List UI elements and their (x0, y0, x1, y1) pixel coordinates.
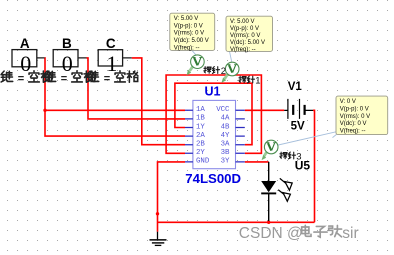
svg-text:4Y: 4Y (221, 132, 230, 140)
svg-text:V(freq): --: V(freq): -- (340, 129, 366, 135)
svg-text:V(dc): 5.00 V: V(dc): 5.00 V (230, 40, 265, 46)
svg-text:V(dc): 0 V: V(dc): 0 V (340, 121, 367, 127)
svg-text:1Y: 1Y (196, 123, 205, 131)
svg-text:V: 0 V: V: 0 V (340, 99, 356, 105)
svg-text:V(rms): 0 V: V(rms): 0 V (174, 31, 204, 37)
svg-text:VCC: VCC (216, 106, 230, 114)
svg-text:74LS00D: 74LS00D (185, 171, 241, 186)
svg-text:C: C (106, 36, 116, 51)
svg-text:4A: 4A (221, 115, 230, 123)
svg-text:V(p-p): 0 V: V(p-p): 0 V (340, 106, 369, 112)
svg-text:1: 1 (255, 76, 260, 87)
svg-text:V(rms): 0 V: V(rms): 0 V (340, 114, 370, 120)
svg-text:5V: 5V (291, 121, 305, 133)
svg-text:3A: 3A (221, 141, 230, 149)
svg-text:V(p-p): 0 V: V(p-p): 0 V (174, 23, 203, 29)
svg-text:U1: U1 (205, 85, 221, 99)
svg-text:V1: V1 (288, 81, 303, 93)
svg-text:V(rms): 0 V: V(rms): 0 V (230, 33, 260, 39)
svg-text:A: A (20, 36, 30, 51)
svg-text:3B: 3B (221, 149, 230, 157)
svg-text:3: 3 (296, 152, 301, 163)
svg-text:1B: 1B (196, 115, 205, 123)
svg-text:V(p-p): 0 V: V(p-p): 0 V (230, 26, 259, 32)
svg-text:CSDN @: CSDN @ (239, 225, 303, 242)
svg-text:V(dc): 5.00 V: V(dc): 5.00 V (174, 38, 209, 44)
svg-text:V: 5.00 V: V: 5.00 V (230, 19, 254, 25)
svg-text:1A: 1A (196, 106, 205, 114)
svg-text:=: = (61, 73, 67, 85)
svg-text:B: B (62, 36, 72, 51)
svg-text:2B: 2B (196, 141, 205, 149)
svg-text:2: 2 (221, 66, 226, 77)
svg-text:V(freq): --: V(freq): -- (174, 45, 200, 51)
svg-text:sir: sir (342, 225, 358, 242)
svg-text:=: = (104, 73, 110, 85)
svg-text:V: 5.00 V: V: 5.00 V (174, 16, 198, 22)
svg-text:V(freq): --: V(freq): -- (230, 47, 256, 53)
svg-text:GND: GND (196, 158, 210, 166)
svg-text:2A: 2A (196, 132, 205, 140)
svg-text:2Y: 2Y (196, 149, 205, 157)
svg-text:4B: 4B (221, 123, 230, 131)
svg-text:3Y: 3Y (221, 158, 230, 166)
svg-text:=: = (18, 73, 24, 85)
